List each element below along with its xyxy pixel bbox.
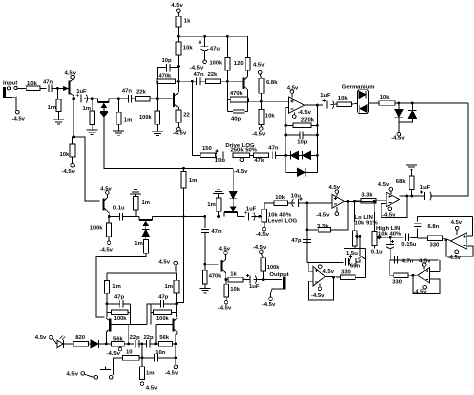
label 4.5v 6.8k <box>253 63 265 69</box>
label 10p C8 <box>297 140 308 146</box>
wire row B feed <box>178 80 196 82</box>
svg-text:1m: 1m <box>124 118 133 124</box>
wire right net riser <box>150 304 152 325</box>
node AG junction <box>306 228 309 231</box>
node AA junction <box>203 263 206 266</box>
wire opampC vminus <box>336 207 338 212</box>
ground G5 <box>406 165 417 169</box>
node bus5 <box>316 134 319 137</box>
node X junction <box>217 215 220 218</box>
wire C7 left <box>227 110 233 112</box>
wire C26 left <box>151 303 161 305</box>
wire VR4 top riser <box>373 201 375 231</box>
label 3.3k R24 <box>361 193 373 199</box>
wire U5 vplus <box>456 230 458 235</box>
label 47n C3 <box>122 89 133 95</box>
svg-text:56k: 56k <box>159 335 170 341</box>
svg-text:10: 10 <box>126 350 133 356</box>
svg-text:22k: 22k <box>136 90 147 96</box>
label 10k R33 <box>230 287 241 293</box>
jack switch terminal <box>14 86 17 89</box>
label 68k R23 <box>396 179 407 185</box>
terminal 4.5v astable <box>174 261 178 265</box>
node V junction <box>203 215 206 218</box>
resistor R5 1m <box>116 112 121 124</box>
transistor Q1 JFET input <box>63 79 73 96</box>
diode D4 clip <box>297 168 305 176</box>
wire blockD left edge lower <box>417 228 419 238</box>
label 10u C15 <box>291 193 302 199</box>
node G junction <box>177 65 180 68</box>
wire term to R16 <box>260 74 261 78</box>
svg-text:3.3k: 3.3k <box>361 193 373 199</box>
label 4.5v R47 <box>146 386 158 392</box>
wire QL emitter <box>105 332 107 344</box>
wire opampC vplus <box>336 193 338 196</box>
label 1m R39 <box>112 284 121 290</box>
wire R26 to row <box>135 210 137 216</box>
wire R27 down left <box>96 253 146 316</box>
ground G4 <box>152 131 163 135</box>
wire R39 to QL collector <box>106 293 108 317</box>
node I junction <box>191 80 194 83</box>
resistor R18 220k <box>293 123 311 128</box>
wire switch to riser <box>112 376 115 378</box>
node U5 fb junction <box>444 238 447 241</box>
label 47n C1 <box>43 79 54 85</box>
label 4.5v switch <box>67 371 79 377</box>
op-amp U6 (points left) <box>418 268 430 283</box>
label 100k R34 <box>267 265 280 271</box>
resistor R40 1m <box>174 280 179 293</box>
capacitor C7 40p <box>233 110 245 113</box>
svg-text:220k: 220k <box>301 117 315 123</box>
transistor Q5 PNP <box>103 198 107 211</box>
svg-text:250k 50%: 250k 50% <box>231 147 258 153</box>
terminal 4.5v opamp B <box>389 188 393 192</box>
label Lo LIN <box>355 215 373 221</box>
wire R3 to ground <box>91 125 93 131</box>
op-amp U5 feedback loop <box>446 241 473 256</box>
resistor R31 470k <box>202 270 207 284</box>
wire VR4 wiper row <box>378 236 404 238</box>
resistor R39 1m <box>105 281 110 294</box>
transistor Q10 NPN astable right <box>174 318 178 333</box>
label 1uF C12 <box>420 185 431 191</box>
ground G8 <box>199 288 210 292</box>
svg-text:47k: 47k <box>254 158 265 164</box>
svg-text:Input: Input <box>3 81 17 87</box>
terminal -4.5v opamp A <box>293 115 297 119</box>
wire U4 vplus <box>319 268 321 269</box>
resistor R30 10k <box>274 201 287 206</box>
label -4.5v R33 <box>218 306 232 312</box>
svg-text:100k: 100k <box>114 316 127 322</box>
label 1uF C17 <box>249 284 260 290</box>
wire R8 to rail <box>177 27 179 36</box>
terminal -4.5v R33 <box>224 300 228 304</box>
wire Q7 to C14 <box>238 216 245 218</box>
wire R30 to C15 <box>287 202 295 204</box>
wire node AA to R31 <box>204 264 206 270</box>
wire Lo return riser <box>365 249 367 278</box>
node D junction <box>72 136 75 139</box>
wire C4 left <box>157 68 166 79</box>
wire riser crossing left <box>147 304 151 325</box>
svg-text:4.5v: 4.5v <box>171 3 183 9</box>
wire R46 left riser <box>114 358 123 375</box>
label 47n C5 <box>194 72 205 78</box>
wire R29 to row <box>218 211 220 216</box>
label 47k R20 <box>254 158 265 164</box>
wire node E to C3 <box>118 98 128 100</box>
wire node D to R4 <box>71 137 73 144</box>
ground G7 <box>213 189 224 193</box>
resistor R35 3.3k <box>318 228 330 233</box>
label Drive LOG <box>225 143 255 149</box>
wire VR1 to R20 <box>250 154 254 156</box>
svg-text:-4.5v: -4.5v <box>12 116 26 122</box>
resistor R7 100k <box>155 111 160 124</box>
svg-text:-4.5v: -4.5v <box>316 212 330 218</box>
wire R43 to D12 <box>88 343 91 345</box>
svg-text:40p: 40p <box>231 117 242 123</box>
wire led feed <box>53 339 57 344</box>
resistor R23 68k <box>409 176 414 190</box>
node A junction <box>56 87 59 90</box>
wire clip bottom <box>399 118 413 122</box>
label 56k R44 <box>113 337 124 343</box>
terminal -4.5v astable L <box>118 347 122 351</box>
resistor R13 100k <box>225 58 230 71</box>
wire R10 left riser <box>156 81 158 99</box>
label 330 R37 <box>430 242 441 248</box>
jack tip terminal <box>7 87 10 90</box>
wire R13 to node J <box>226 70 228 81</box>
wire node M to R17 <box>261 101 263 109</box>
wire U6 vplus <box>423 266 425 269</box>
wire R45 to QR col <box>173 343 176 345</box>
terminal 4.5v Q5 <box>106 191 110 195</box>
label 22 R11 <box>183 113 190 119</box>
label 10 R46 <box>126 350 133 356</box>
label 68n C19 <box>350 264 361 270</box>
node Z junction <box>306 202 309 205</box>
wire term stub <box>119 345 121 348</box>
transistor Q7 JFET series <box>224 207 238 217</box>
wire base crossing <box>111 324 147 326</box>
capacitor C2 1uF <box>76 94 88 103</box>
svg-text:0.15u: 0.15u <box>401 242 416 248</box>
wire VR3 wiper riser <box>359 236 361 256</box>
wire R28 to node U <box>183 188 185 217</box>
wire R18 right <box>311 124 318 126</box>
terminal -4.5v C6 <box>203 60 207 64</box>
resistor R26 1m <box>133 196 138 210</box>
capacitor C18 47p <box>303 239 311 242</box>
wire VR3 bottom <box>354 246 356 249</box>
wire Lo return row <box>344 248 366 250</box>
svg-text:4.7n: 4.7n <box>402 258 414 264</box>
wire C10 right <box>275 154 285 156</box>
label -4.5v R25 <box>100 248 114 254</box>
op-amp U2 feedback loop <box>381 196 407 218</box>
wire node D to PNP base <box>74 137 100 201</box>
label 10u C9 <box>215 158 226 164</box>
resistor R20 47k <box>253 153 268 158</box>
wire rail left riser <box>106 273 108 281</box>
label -4.5v VR2 <box>256 232 270 238</box>
label Germanium <box>342 84 375 90</box>
label 470k R15 <box>230 91 243 97</box>
svg-text:1m: 1m <box>146 370 155 376</box>
wire hop arc <box>358 257 364 259</box>
label Input <box>3 81 17 87</box>
wire R24 left <box>355 200 361 202</box>
terminal 4.5v Q1 <box>71 75 75 79</box>
svg-text:22k: 22k <box>208 72 219 78</box>
svg-text:4.5v: 4.5v <box>159 259 171 265</box>
wire R14 to Q4 collector <box>247 70 249 76</box>
capacitor C1 47n <box>49 85 52 93</box>
capacitor C25 47p <box>120 300 123 308</box>
svg-text:330: 330 <box>392 279 403 285</box>
capacitor C4 10p <box>167 64 170 72</box>
terminal -4.5v R4 <box>71 164 75 168</box>
wire C14 to wiper <box>252 216 262 218</box>
svg-text:Germanium: Germanium <box>342 84 375 90</box>
svg-text:4.5v: 4.5v <box>35 335 47 341</box>
wire node V down <box>204 217 206 229</box>
resistor R27 1m <box>144 239 149 253</box>
wire R1 to C1 <box>40 87 47 89</box>
wire R4 to terminal <box>71 157 73 164</box>
node T junction <box>108 215 111 218</box>
wire C13 left <box>109 216 119 218</box>
wire blockD left edge upper <box>417 216 419 221</box>
label 1m R26 <box>142 200 151 206</box>
wire C26 right <box>164 303 177 305</box>
wire Q5 emitter <box>106 194 108 198</box>
terminal 4.5v switch <box>81 372 85 376</box>
svg-text:-4.5v: -4.5v <box>253 245 267 251</box>
svg-text:470k: 470k <box>209 273 222 279</box>
wire Q2 to node E <box>109 98 118 100</box>
svg-text:1uF: 1uF <box>76 89 87 95</box>
label 10k 40% VR2 <box>268 213 292 219</box>
label 4.5v opamp B <box>378 182 390 188</box>
svg-text:4.5v: 4.5v <box>67 371 79 377</box>
label -4.5v QR <box>165 370 179 376</box>
wire node T to R25 <box>108 217 110 223</box>
wire node C to R3 <box>91 99 93 111</box>
terminal 4.5v opamp A <box>290 90 294 94</box>
node F junction <box>156 97 159 100</box>
wire node A to R2 <box>56 88 58 99</box>
capacitor C9 10u <box>215 149 223 159</box>
wire C23 down <box>389 248 392 260</box>
node AE junction <box>353 200 356 203</box>
VR3 wiper arrow <box>355 235 360 238</box>
resistor R33 10k <box>224 284 229 297</box>
node S junction <box>405 195 408 198</box>
wire node J to Q4 base <box>227 80 242 82</box>
label 1m R5 <box>124 118 133 124</box>
wire output bus down <box>316 105 318 172</box>
label 22k R12 <box>208 72 219 78</box>
rail node 1 <box>177 35 180 38</box>
wire AQ to C29 <box>142 357 154 359</box>
label 22k R6 <box>136 90 147 96</box>
rail node 2 <box>203 35 206 38</box>
node L junction <box>246 100 249 103</box>
svg-text:1m: 1m <box>189 178 198 184</box>
wire C13 right <box>123 216 139 218</box>
wire led to R43 <box>63 343 73 345</box>
label -4.5v R17 <box>252 132 266 138</box>
label 330 R38 <box>392 279 403 285</box>
op-amp U4 <box>313 267 325 287</box>
germanium diode pair box <box>358 90 369 114</box>
label Level LOG <box>268 218 298 224</box>
wire C4 right <box>170 67 179 69</box>
wire blockF right edge <box>439 260 441 272</box>
label 47p C26 <box>158 294 169 300</box>
wire R34 to node AC <box>262 271 264 280</box>
svg-text:10u: 10u <box>215 158 226 164</box>
wire C15 to node Z <box>299 202 307 204</box>
terminal -4.5v U5 <box>455 250 459 254</box>
op-amp U1 <box>288 97 304 113</box>
wire blockF top edge <box>390 259 439 261</box>
wire base crossing right <box>156 324 174 326</box>
wire R41 right <box>128 311 130 313</box>
node bus6 <box>316 154 319 157</box>
resistor R17 10k <box>259 110 264 125</box>
wire R21 to germanium <box>351 102 357 105</box>
capacitor C29 10n <box>154 354 157 362</box>
terminal -4.5v input <box>15 110 19 114</box>
label 6.8n C21 <box>428 224 440 230</box>
wire blockF left edge <box>390 260 394 275</box>
label 1uF C11 <box>320 93 331 99</box>
ground G2 <box>87 130 98 134</box>
wire opampB vplus <box>390 191 392 194</box>
label 47u C6 <box>210 47 221 53</box>
label 47n C16 <box>211 229 222 235</box>
wire VR2 bottom <box>263 222 265 227</box>
svg-text:-4.5v: -4.5v <box>107 351 121 357</box>
node N junction <box>316 104 319 107</box>
wire C28 to R45 <box>150 343 159 345</box>
resistor R25 100k <box>107 223 112 237</box>
wire astable rail <box>107 272 176 274</box>
label 0.1u C23 <box>371 250 383 256</box>
node bus2 <box>284 134 287 137</box>
svg-text:1m: 1m <box>165 284 174 290</box>
node bus3 <box>284 154 287 157</box>
resistor R43 820 <box>73 342 88 347</box>
label -4.5v U6 <box>414 289 428 295</box>
svg-text:1m: 1m <box>142 200 151 206</box>
svg-text:4.5v: 4.5v <box>65 71 77 77</box>
label 56k R45 <box>159 335 170 341</box>
label 10k R4 <box>60 152 71 158</box>
label 10k R30 <box>275 195 286 201</box>
wire Q5 collector down <box>107 211 109 217</box>
svg-text:-4.5v: -4.5v <box>100 248 114 254</box>
wire Q2 gate down <box>103 108 105 111</box>
svg-text:10k: 10k <box>380 95 391 101</box>
label 4.5v led <box>35 335 47 341</box>
wire G7 to R29 <box>218 194 220 199</box>
wire junction to R37 <box>418 237 428 239</box>
capacitor C12 1uF <box>420 190 432 200</box>
label -4.5v U5 <box>448 255 462 261</box>
wire R12 to node J <box>221 80 228 82</box>
label 820 R43 <box>75 335 86 341</box>
resistor R47 1m <box>140 367 145 380</box>
node AB junction <box>224 278 227 281</box>
label Output <box>269 272 288 278</box>
wire C27 to C28 <box>137 343 146 345</box>
node AC junction <box>262 278 265 281</box>
svg-text:1uF: 1uF <box>246 206 257 212</box>
wire blockD top edge <box>418 215 473 217</box>
wire Q8 emitter to R32 <box>226 279 228 281</box>
wire Q6 gate down <box>145 226 147 231</box>
wire rail to R13 <box>226 36 228 57</box>
label 1m R28 <box>189 178 198 184</box>
wire VR1 wiper <box>241 157 243 159</box>
svg-text:-4.5v: -4.5v <box>173 131 187 137</box>
label 1m R29 <box>207 202 216 208</box>
label 22p C27 <box>130 335 141 341</box>
svg-text:-4.5v: -4.5v <box>391 136 405 142</box>
svg-text:10u: 10u <box>291 193 302 199</box>
wire C12 left <box>400 195 425 197</box>
label 100k R13 <box>210 60 223 66</box>
node M junction <box>260 100 263 103</box>
node J junction <box>226 80 229 83</box>
node AP junction <box>174 343 177 346</box>
label 40p C7 <box>231 117 242 123</box>
wire R42 right <box>172 311 177 313</box>
wire germanium to R22 <box>368 102 379 104</box>
resistor R28 1m <box>181 172 186 188</box>
svg-text:150: 150 <box>202 146 213 152</box>
svg-text:100k: 100k <box>267 265 280 271</box>
wire node F to Q3 base <box>157 98 173 100</box>
svg-text:120: 120 <box>234 61 245 67</box>
wire opampB in <box>376 200 386 202</box>
wire R7 to ground <box>156 124 158 131</box>
wire R25 to term <box>108 237 110 241</box>
node AR junction <box>174 357 177 360</box>
wire VR2 top <box>264 203 274 209</box>
svg-text:10k 91%: 10k 91% <box>355 221 379 227</box>
svg-text:-4.5v: -4.5v <box>62 169 76 175</box>
diode D10 gate bias <box>229 192 237 199</box>
svg-text:10k: 10k <box>265 114 276 120</box>
wire U5 plus stub <box>467 235 473 237</box>
wire C23 top <box>389 237 391 244</box>
resistor R4 10k <box>70 144 75 157</box>
diode D12 <box>91 340 99 348</box>
svg-text:-4.5v: -4.5v <box>262 302 276 308</box>
label 10p C4 <box>162 58 173 64</box>
wire R5 to ground <box>118 124 120 131</box>
